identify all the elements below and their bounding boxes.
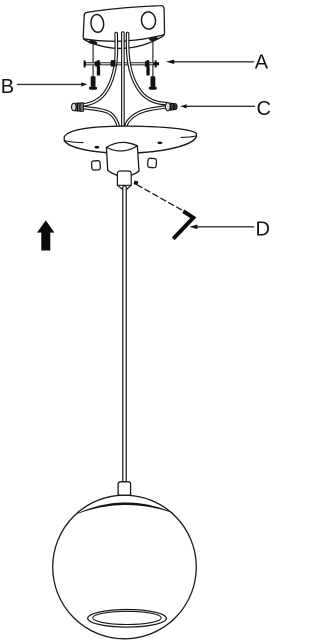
set screw bbox=[134, 180, 139, 185]
crossbar center block bbox=[111, 60, 116, 67]
right connector (plug pointing right) bbox=[165, 102, 177, 110]
crossbar right hanging screw bbox=[146, 67, 149, 76]
right lower cable (connector to canopy) bbox=[126, 107, 167, 127]
crossbar right end slot bbox=[155, 60, 157, 67]
canopy left thickness arc bbox=[64, 141, 83, 143]
label C arrow bbox=[187, 105, 255, 107]
right mounting screw : head bbox=[149, 87, 157, 90]
svg-text:B: B bbox=[1, 76, 14, 98]
cord bbox=[122, 188, 127, 484]
canopy plate bbox=[64, 126, 196, 153]
right support screw line bbox=[152, 40, 154, 77]
right square clip bbox=[147, 158, 156, 168]
left lower cable (connector to canopy) bbox=[83, 108, 118, 127]
up arrow bbox=[37, 220, 54, 250]
grip bottom line bbox=[117, 184, 131, 186]
globe bottom inner ring bbox=[93, 611, 161, 624]
globe bottom outer ring bbox=[88, 610, 167, 628]
label A arrow bbox=[174, 61, 254, 63]
junction box right hole bbox=[141, 11, 157, 30]
junction box outline bbox=[83, 6, 164, 49]
hub top front arc bbox=[106, 146, 137, 151]
globe sphere bbox=[53, 495, 197, 639]
crossbar A : main bar bbox=[84, 62, 160, 65]
right mounting screw : shaft bbox=[151, 76, 156, 87]
left square clip bbox=[91, 161, 100, 171]
label D arrow bbox=[197, 226, 254, 228]
canopy right thickness arc bbox=[181, 136, 196, 138]
left cable (box to left connector) bbox=[83, 34, 117, 105]
crossbar left hanging screw bbox=[97, 67, 100, 76]
left mounting screw B : shaft bbox=[91, 76, 96, 87]
junction box bottom back rim arc bbox=[83, 35, 164, 42]
canopy hub cylinder bbox=[106, 142, 139, 176]
dashed pointer line to allen key bbox=[137, 185, 183, 211]
crossbar left end slot bbox=[84, 60, 86, 67]
junction box left hole bbox=[90, 14, 105, 33]
left mounting screw B : head bbox=[89, 87, 97, 90]
crossbar right nut block bbox=[145, 61, 150, 67]
crossbar left nut block bbox=[95, 61, 100, 67]
allen key D bbox=[173, 211, 193, 239]
canopy right hole dot bbox=[158, 142, 163, 145]
globe neck bbox=[118, 482, 131, 495]
right cable (box to right connector) bbox=[128, 34, 166, 104]
canopy left hole dot bbox=[95, 146, 100, 149]
cord grip bbox=[117, 171, 131, 189]
svg-text:D: D bbox=[256, 219, 270, 241]
crossbar slot white lines bbox=[87, 63, 95, 65]
left rim tab bbox=[88, 40, 98, 45]
label B arrow bbox=[18, 83, 81, 85]
canopy plate bottom arc bbox=[64, 136, 196, 153]
center cable (box to canopy) bbox=[121, 33, 125, 127]
left connector C (plug pointing left) bbox=[72, 103, 84, 112]
svg-text:A: A bbox=[255, 52, 269, 74]
svg-text:C: C bbox=[257, 98, 271, 120]
right rim tab bbox=[149, 36, 159, 41]
left support screw line bbox=[92, 43, 94, 77]
globe seam lens bbox=[77, 503, 173, 514]
